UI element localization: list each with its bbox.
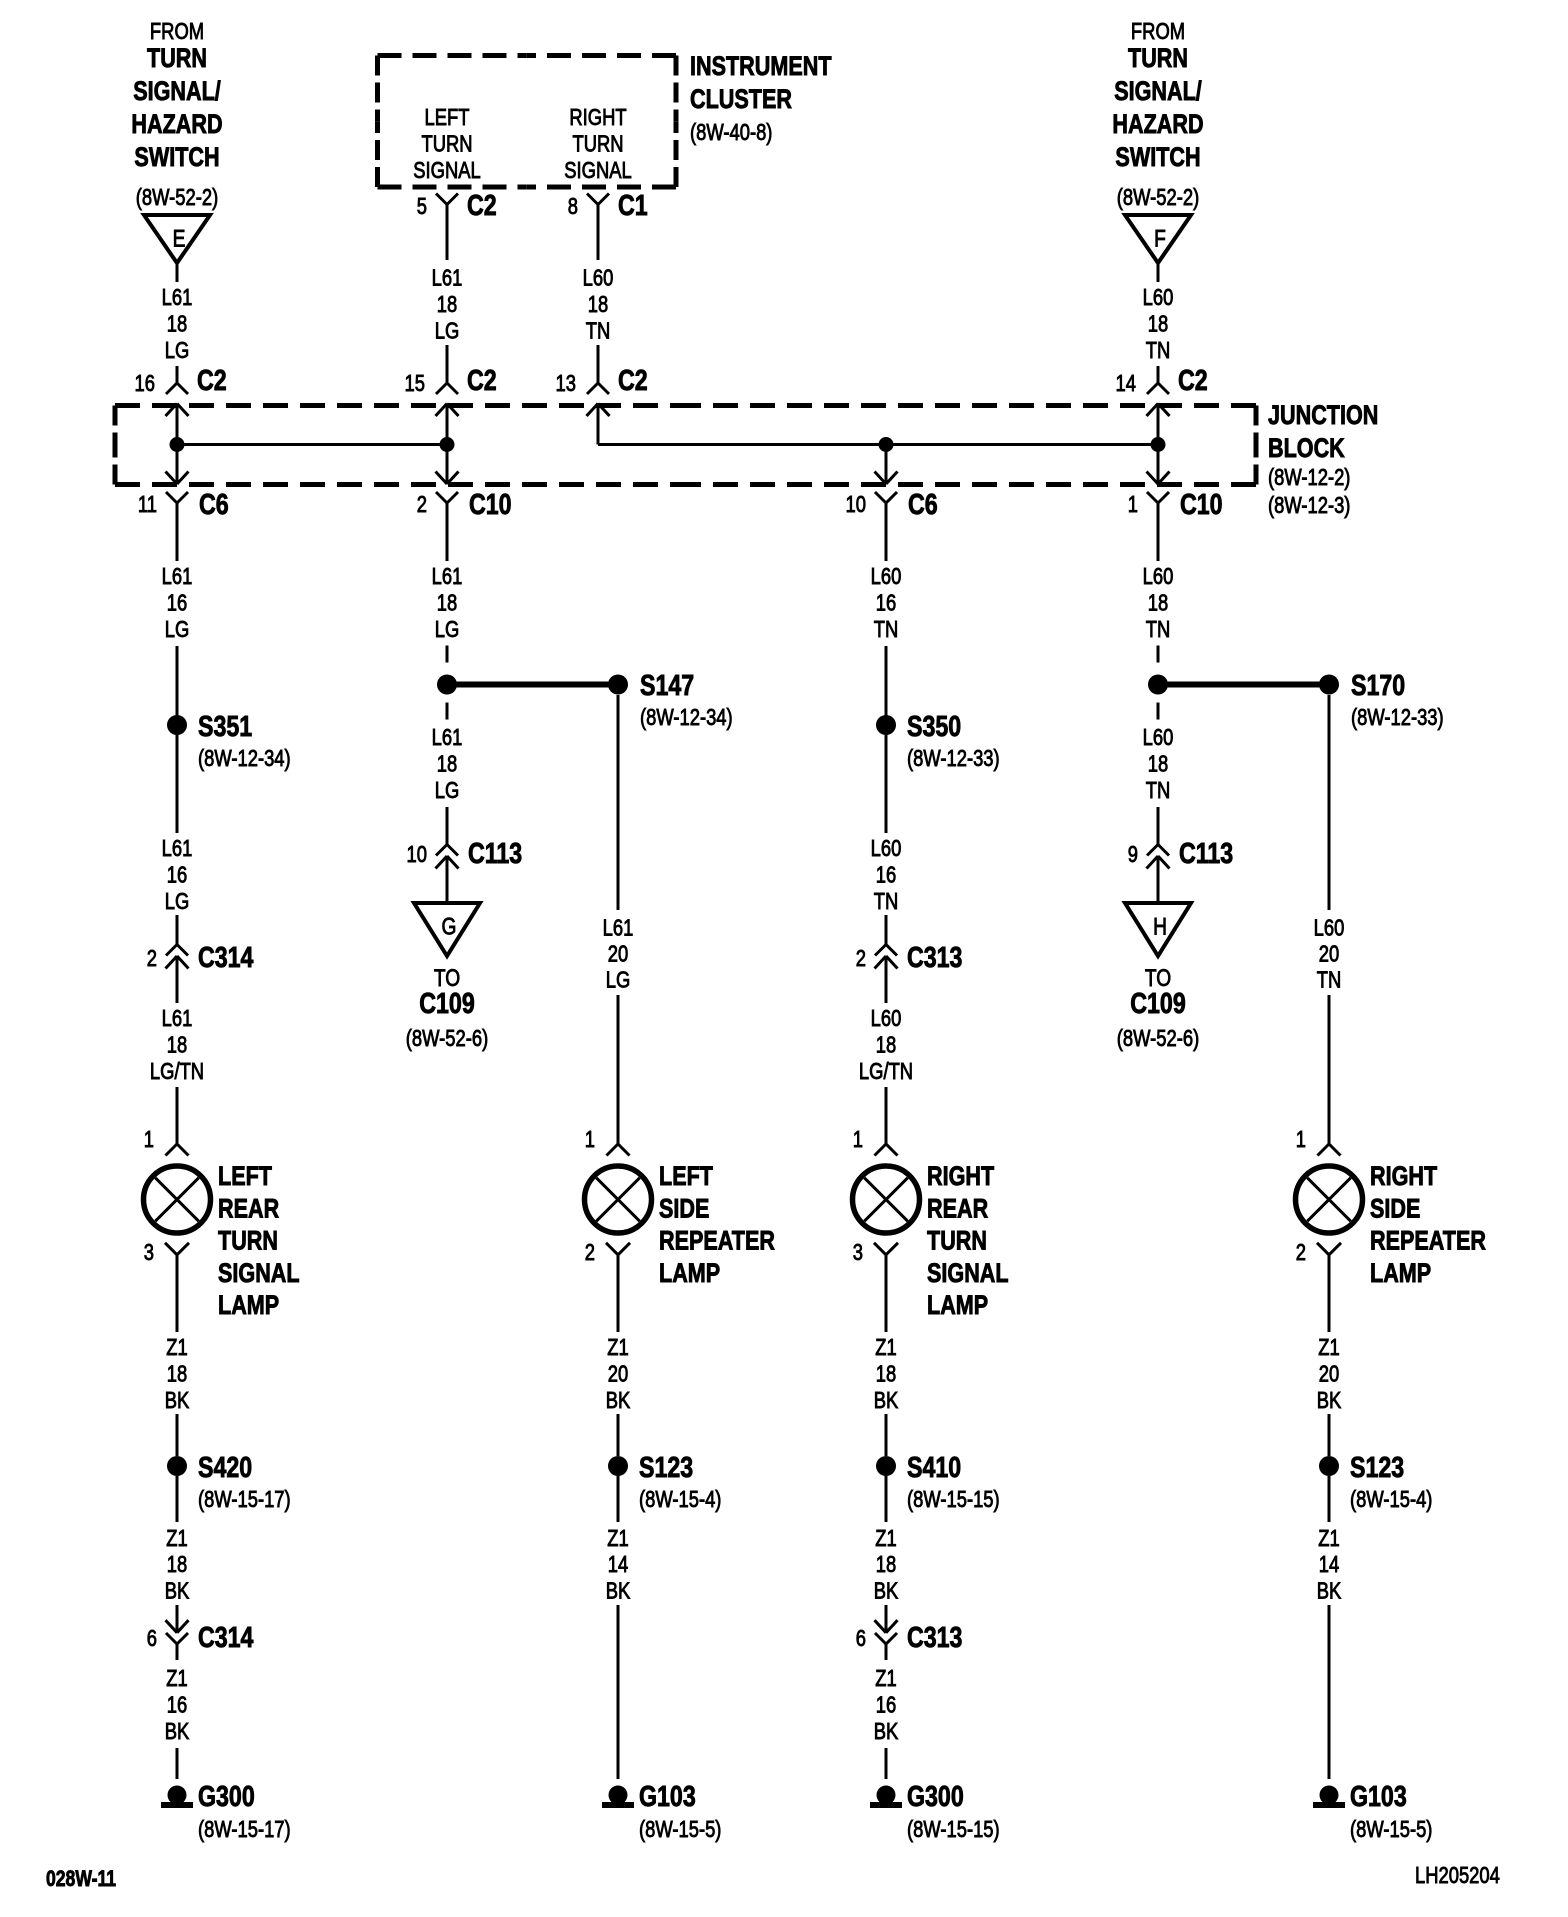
svg-text:TN: TN — [1146, 617, 1171, 642]
svg-text:E: E — [173, 224, 186, 252]
svg-text:18: 18 — [876, 1552, 896, 1577]
svg-text:(8W-40-8): (8W-40-8) — [690, 120, 772, 145]
svg-text:Z1: Z1 — [875, 1335, 896, 1360]
svg-text:(8W-12-34): (8W-12-34) — [640, 705, 733, 730]
svg-text:13: 13 — [556, 371, 576, 396]
svg-text:Z1: Z1 — [875, 1526, 896, 1551]
svg-text:C6: C6 — [199, 487, 229, 520]
svg-text:L61: L61 — [432, 725, 463, 750]
svg-text:REPEATER: REPEATER — [1370, 1226, 1486, 1256]
svg-text:(8W-52-2): (8W-52-2) — [1117, 185, 1199, 210]
svg-text:L60: L60 — [583, 266, 614, 291]
svg-text:LAMP: LAMP — [218, 1291, 279, 1321]
svg-text:Z1: Z1 — [1318, 1526, 1339, 1551]
svg-text:LG: LG — [435, 778, 460, 803]
svg-text:BK: BK — [606, 1579, 631, 1604]
svg-text:(8W-15-15): (8W-15-15) — [907, 1817, 1000, 1842]
svg-text:SIDE: SIDE — [659, 1194, 709, 1224]
svg-text:16: 16 — [167, 863, 187, 888]
svg-text:S350: S350 — [907, 709, 961, 742]
svg-text:6: 6 — [147, 1626, 157, 1651]
svg-text:SIGNAL: SIGNAL — [413, 158, 480, 183]
svg-text:(8W-52-6): (8W-52-6) — [406, 1026, 488, 1051]
svg-text:(8W-12-3): (8W-12-3) — [1268, 493, 1350, 518]
svg-text:C314: C314 — [198, 1620, 254, 1653]
svg-text:C2: C2 — [197, 363, 227, 396]
svg-text:BK: BK — [165, 1579, 190, 1604]
svg-text:BK: BK — [165, 1719, 190, 1744]
svg-text:16: 16 — [167, 591, 187, 616]
svg-text:RIGHT: RIGHT — [927, 1162, 994, 1192]
svg-text:2: 2 — [585, 1240, 595, 1265]
svg-text:18: 18 — [167, 1033, 187, 1058]
svg-text:BK: BK — [1317, 1388, 1342, 1413]
svg-text:Z1: Z1 — [607, 1335, 628, 1360]
svg-text:C2: C2 — [467, 363, 497, 396]
svg-text:14: 14 — [608, 1552, 628, 1577]
svg-text:L60: L60 — [1143, 564, 1174, 589]
svg-text:C113: C113 — [1179, 836, 1233, 869]
svg-text:L60: L60 — [1314, 916, 1345, 941]
svg-text:5: 5 — [417, 194, 427, 219]
svg-text:Z1: Z1 — [1318, 1335, 1339, 1360]
svg-text:INSTRUMENT: INSTRUMENT — [690, 52, 832, 82]
svg-text:15: 15 — [405, 371, 425, 396]
svg-text:BK: BK — [874, 1388, 899, 1413]
svg-text:14: 14 — [1116, 371, 1136, 396]
svg-text:SWITCH: SWITCH — [134, 143, 219, 173]
svg-text:(8W-52-6): (8W-52-6) — [1117, 1026, 1199, 1051]
svg-text:L60: L60 — [871, 1006, 902, 1031]
svg-text:028W-11: 028W-11 — [46, 1867, 116, 1891]
svg-text:10: 10 — [846, 492, 866, 517]
svg-text:C2: C2 — [1178, 363, 1208, 396]
svg-text:CLUSTER: CLUSTER — [690, 85, 792, 115]
svg-text:JUNCTION: JUNCTION — [1268, 401, 1378, 431]
svg-text:LG: LG — [606, 968, 631, 993]
svg-text:L60: L60 — [871, 836, 902, 861]
svg-text:(8W-15-5): (8W-15-5) — [1350, 1817, 1432, 1842]
svg-text:BK: BK — [606, 1388, 631, 1413]
svg-text:S420: S420 — [198, 1450, 252, 1483]
svg-text:(8W-12-33): (8W-12-33) — [1351, 705, 1444, 730]
svg-text:3: 3 — [144, 1240, 154, 1265]
svg-text:LEFT: LEFT — [425, 105, 470, 130]
svg-text:18: 18 — [167, 312, 187, 337]
svg-text:LG/TN: LG/TN — [150, 1059, 204, 1084]
svg-text:2: 2 — [856, 946, 866, 971]
svg-text:SIGNAL/: SIGNAL/ — [133, 77, 221, 107]
svg-text:(8W-15-15): (8W-15-15) — [907, 1487, 1000, 1512]
svg-text:TN: TN — [1146, 338, 1171, 363]
svg-text:BK: BK — [874, 1579, 899, 1604]
svg-text:G300: G300 — [198, 1779, 255, 1812]
svg-text:G103: G103 — [639, 1779, 696, 1812]
svg-text:(8W-15-17): (8W-15-17) — [198, 1487, 291, 1512]
svg-text:10: 10 — [407, 842, 427, 867]
svg-text:TN: TN — [874, 617, 899, 642]
svg-text:C313: C313 — [907, 940, 962, 973]
svg-text:16: 16 — [167, 1693, 187, 1718]
svg-text:LG/TN: LG/TN — [859, 1059, 913, 1084]
svg-text:16: 16 — [135, 371, 155, 396]
svg-text:18: 18 — [167, 1552, 187, 1577]
svg-text:LG: LG — [165, 617, 190, 642]
svg-text:1: 1 — [853, 1127, 863, 1152]
svg-text:20: 20 — [1319, 942, 1339, 967]
svg-text:18: 18 — [1148, 752, 1168, 777]
svg-text:TN: TN — [1146, 778, 1171, 803]
svg-text:SWITCH: SWITCH — [1115, 143, 1200, 173]
svg-text:L60: L60 — [871, 564, 902, 589]
svg-text:L61: L61 — [162, 564, 193, 589]
svg-text:L61: L61 — [162, 1006, 193, 1031]
svg-text:TURN: TURN — [1128, 44, 1188, 74]
svg-text:C2: C2 — [467, 188, 497, 221]
svg-text:H: H — [1153, 912, 1167, 940]
svg-text:LEFT: LEFT — [659, 1162, 713, 1192]
svg-text:18: 18 — [588, 292, 608, 317]
svg-text:3: 3 — [853, 1240, 863, 1265]
svg-text:1: 1 — [585, 1127, 595, 1152]
svg-text:Z1: Z1 — [875, 1666, 896, 1691]
svg-text:2: 2 — [417, 492, 427, 517]
svg-text:16: 16 — [876, 863, 896, 888]
svg-text:20: 20 — [1319, 1362, 1339, 1387]
svg-text:L61: L61 — [432, 266, 463, 291]
svg-text:LAMP: LAMP — [1370, 1259, 1431, 1289]
svg-text:11: 11 — [138, 492, 157, 517]
svg-text:18: 18 — [437, 292, 457, 317]
svg-text:(8W-12-33): (8W-12-33) — [907, 746, 1000, 771]
svg-text:S123: S123 — [639, 1450, 693, 1483]
svg-text:HAZARD: HAZARD — [131, 110, 222, 140]
svg-text:C314: C314 — [198, 940, 254, 973]
svg-text:TN: TN — [1317, 968, 1342, 993]
svg-text:BK: BK — [165, 1388, 190, 1413]
svg-text:BK: BK — [874, 1719, 899, 1744]
svg-text:S170: S170 — [1351, 668, 1405, 701]
svg-text:8: 8 — [568, 194, 578, 219]
svg-text:LEFT: LEFT — [218, 1162, 272, 1192]
svg-text:18: 18 — [1148, 591, 1168, 616]
svg-text:1: 1 — [144, 1127, 154, 1152]
svg-text:C1: C1 — [618, 188, 648, 221]
svg-text:LAMP: LAMP — [927, 1291, 988, 1321]
svg-text:FROM: FROM — [1131, 19, 1185, 44]
svg-text:(8W-15-17): (8W-15-17) — [198, 1817, 291, 1842]
svg-text:18: 18 — [167, 1362, 187, 1387]
svg-text:G: G — [442, 912, 457, 940]
svg-text:TURN: TURN — [572, 132, 623, 157]
svg-text:FROM: FROM — [150, 19, 204, 44]
svg-text:(8W-12-34): (8W-12-34) — [198, 746, 291, 771]
svg-text:TN: TN — [874, 889, 899, 914]
svg-text:SIGNAL: SIGNAL — [564, 158, 631, 183]
svg-text:(8W-12-2): (8W-12-2) — [1268, 465, 1350, 490]
svg-text:L60: L60 — [1143, 285, 1174, 310]
svg-text:C313: C313 — [907, 1620, 962, 1653]
svg-text:TURN: TURN — [927, 1226, 987, 1256]
svg-text:L60: L60 — [1143, 725, 1174, 750]
svg-text:F: F — [1154, 224, 1166, 252]
svg-text:SIGNAL: SIGNAL — [218, 1259, 300, 1289]
svg-text:18: 18 — [437, 752, 457, 777]
svg-text:G103: G103 — [1350, 1779, 1407, 1812]
svg-text:16: 16 — [876, 591, 896, 616]
svg-text:9: 9 — [1128, 842, 1138, 867]
svg-text:Z1: Z1 — [607, 1526, 628, 1551]
svg-text:20: 20 — [608, 1362, 628, 1387]
svg-text:LG: LG — [165, 889, 190, 914]
svg-text:TURN: TURN — [218, 1226, 278, 1256]
svg-text:C2: C2 — [618, 363, 648, 396]
svg-text:L61: L61 — [162, 836, 193, 861]
svg-text:BLOCK: BLOCK — [1268, 434, 1345, 464]
svg-text:C10: C10 — [1180, 487, 1223, 520]
svg-text:SIGNAL: SIGNAL — [927, 1259, 1009, 1289]
svg-text:RIGHT: RIGHT — [569, 105, 626, 130]
svg-text:L61: L61 — [432, 564, 463, 589]
svg-text:(8W-15-4): (8W-15-4) — [639, 1487, 721, 1512]
svg-text:C109: C109 — [419, 986, 474, 1019]
svg-text:S123: S123 — [1350, 1450, 1404, 1483]
svg-text:G300: G300 — [907, 1779, 964, 1812]
svg-text:C10: C10 — [469, 487, 512, 520]
svg-text:2: 2 — [1296, 1240, 1306, 1265]
svg-text:C6: C6 — [908, 487, 938, 520]
svg-text:S410: S410 — [907, 1450, 961, 1483]
svg-text:(8W-15-4): (8W-15-4) — [1350, 1487, 1432, 1512]
svg-text:18: 18 — [437, 591, 457, 616]
svg-text:LG: LG — [435, 319, 460, 344]
svg-text:BK: BK — [1317, 1579, 1342, 1604]
svg-text:TN: TN — [586, 319, 611, 344]
svg-text:6: 6 — [856, 1626, 866, 1651]
svg-text:18: 18 — [876, 1362, 896, 1387]
svg-text:REAR: REAR — [218, 1194, 279, 1224]
svg-text:HAZARD: HAZARD — [1112, 110, 1203, 140]
svg-text:2: 2 — [147, 946, 157, 971]
svg-text:C109: C109 — [1130, 986, 1185, 1019]
svg-text:L61: L61 — [603, 916, 634, 941]
svg-text:SIGNAL/: SIGNAL/ — [1114, 77, 1202, 107]
svg-text:TURN: TURN — [421, 132, 472, 157]
svg-text:18: 18 — [876, 1033, 896, 1058]
svg-text:(8W-15-5): (8W-15-5) — [639, 1817, 721, 1842]
svg-text:1: 1 — [1296, 1127, 1306, 1152]
svg-text:C113: C113 — [468, 836, 522, 869]
svg-text:1: 1 — [1128, 492, 1138, 517]
svg-text:RIGHT: RIGHT — [1370, 1162, 1437, 1192]
svg-text:SIDE: SIDE — [1370, 1194, 1420, 1224]
svg-text:REAR: REAR — [927, 1194, 988, 1224]
svg-text:S351: S351 — [198, 709, 252, 742]
svg-text:16: 16 — [876, 1693, 896, 1718]
svg-text:LH205204: LH205204 — [1415, 1863, 1500, 1888]
svg-text:S147: S147 — [640, 668, 694, 701]
svg-text:Z1: Z1 — [166, 1666, 187, 1691]
svg-text:Z1: Z1 — [166, 1335, 187, 1360]
svg-text:18: 18 — [1148, 312, 1168, 337]
svg-text:14: 14 — [1319, 1552, 1339, 1577]
svg-text:Z1: Z1 — [166, 1526, 187, 1551]
svg-text:LG: LG — [165, 338, 190, 363]
svg-text:REPEATER: REPEATER — [659, 1226, 775, 1256]
svg-text:(8W-52-2): (8W-52-2) — [136, 185, 218, 210]
svg-text:TURN: TURN — [147, 44, 207, 74]
svg-text:20: 20 — [608, 942, 628, 967]
svg-text:LG: LG — [435, 617, 460, 642]
svg-text:LAMP: LAMP — [659, 1259, 720, 1289]
svg-text:L61: L61 — [162, 285, 193, 310]
